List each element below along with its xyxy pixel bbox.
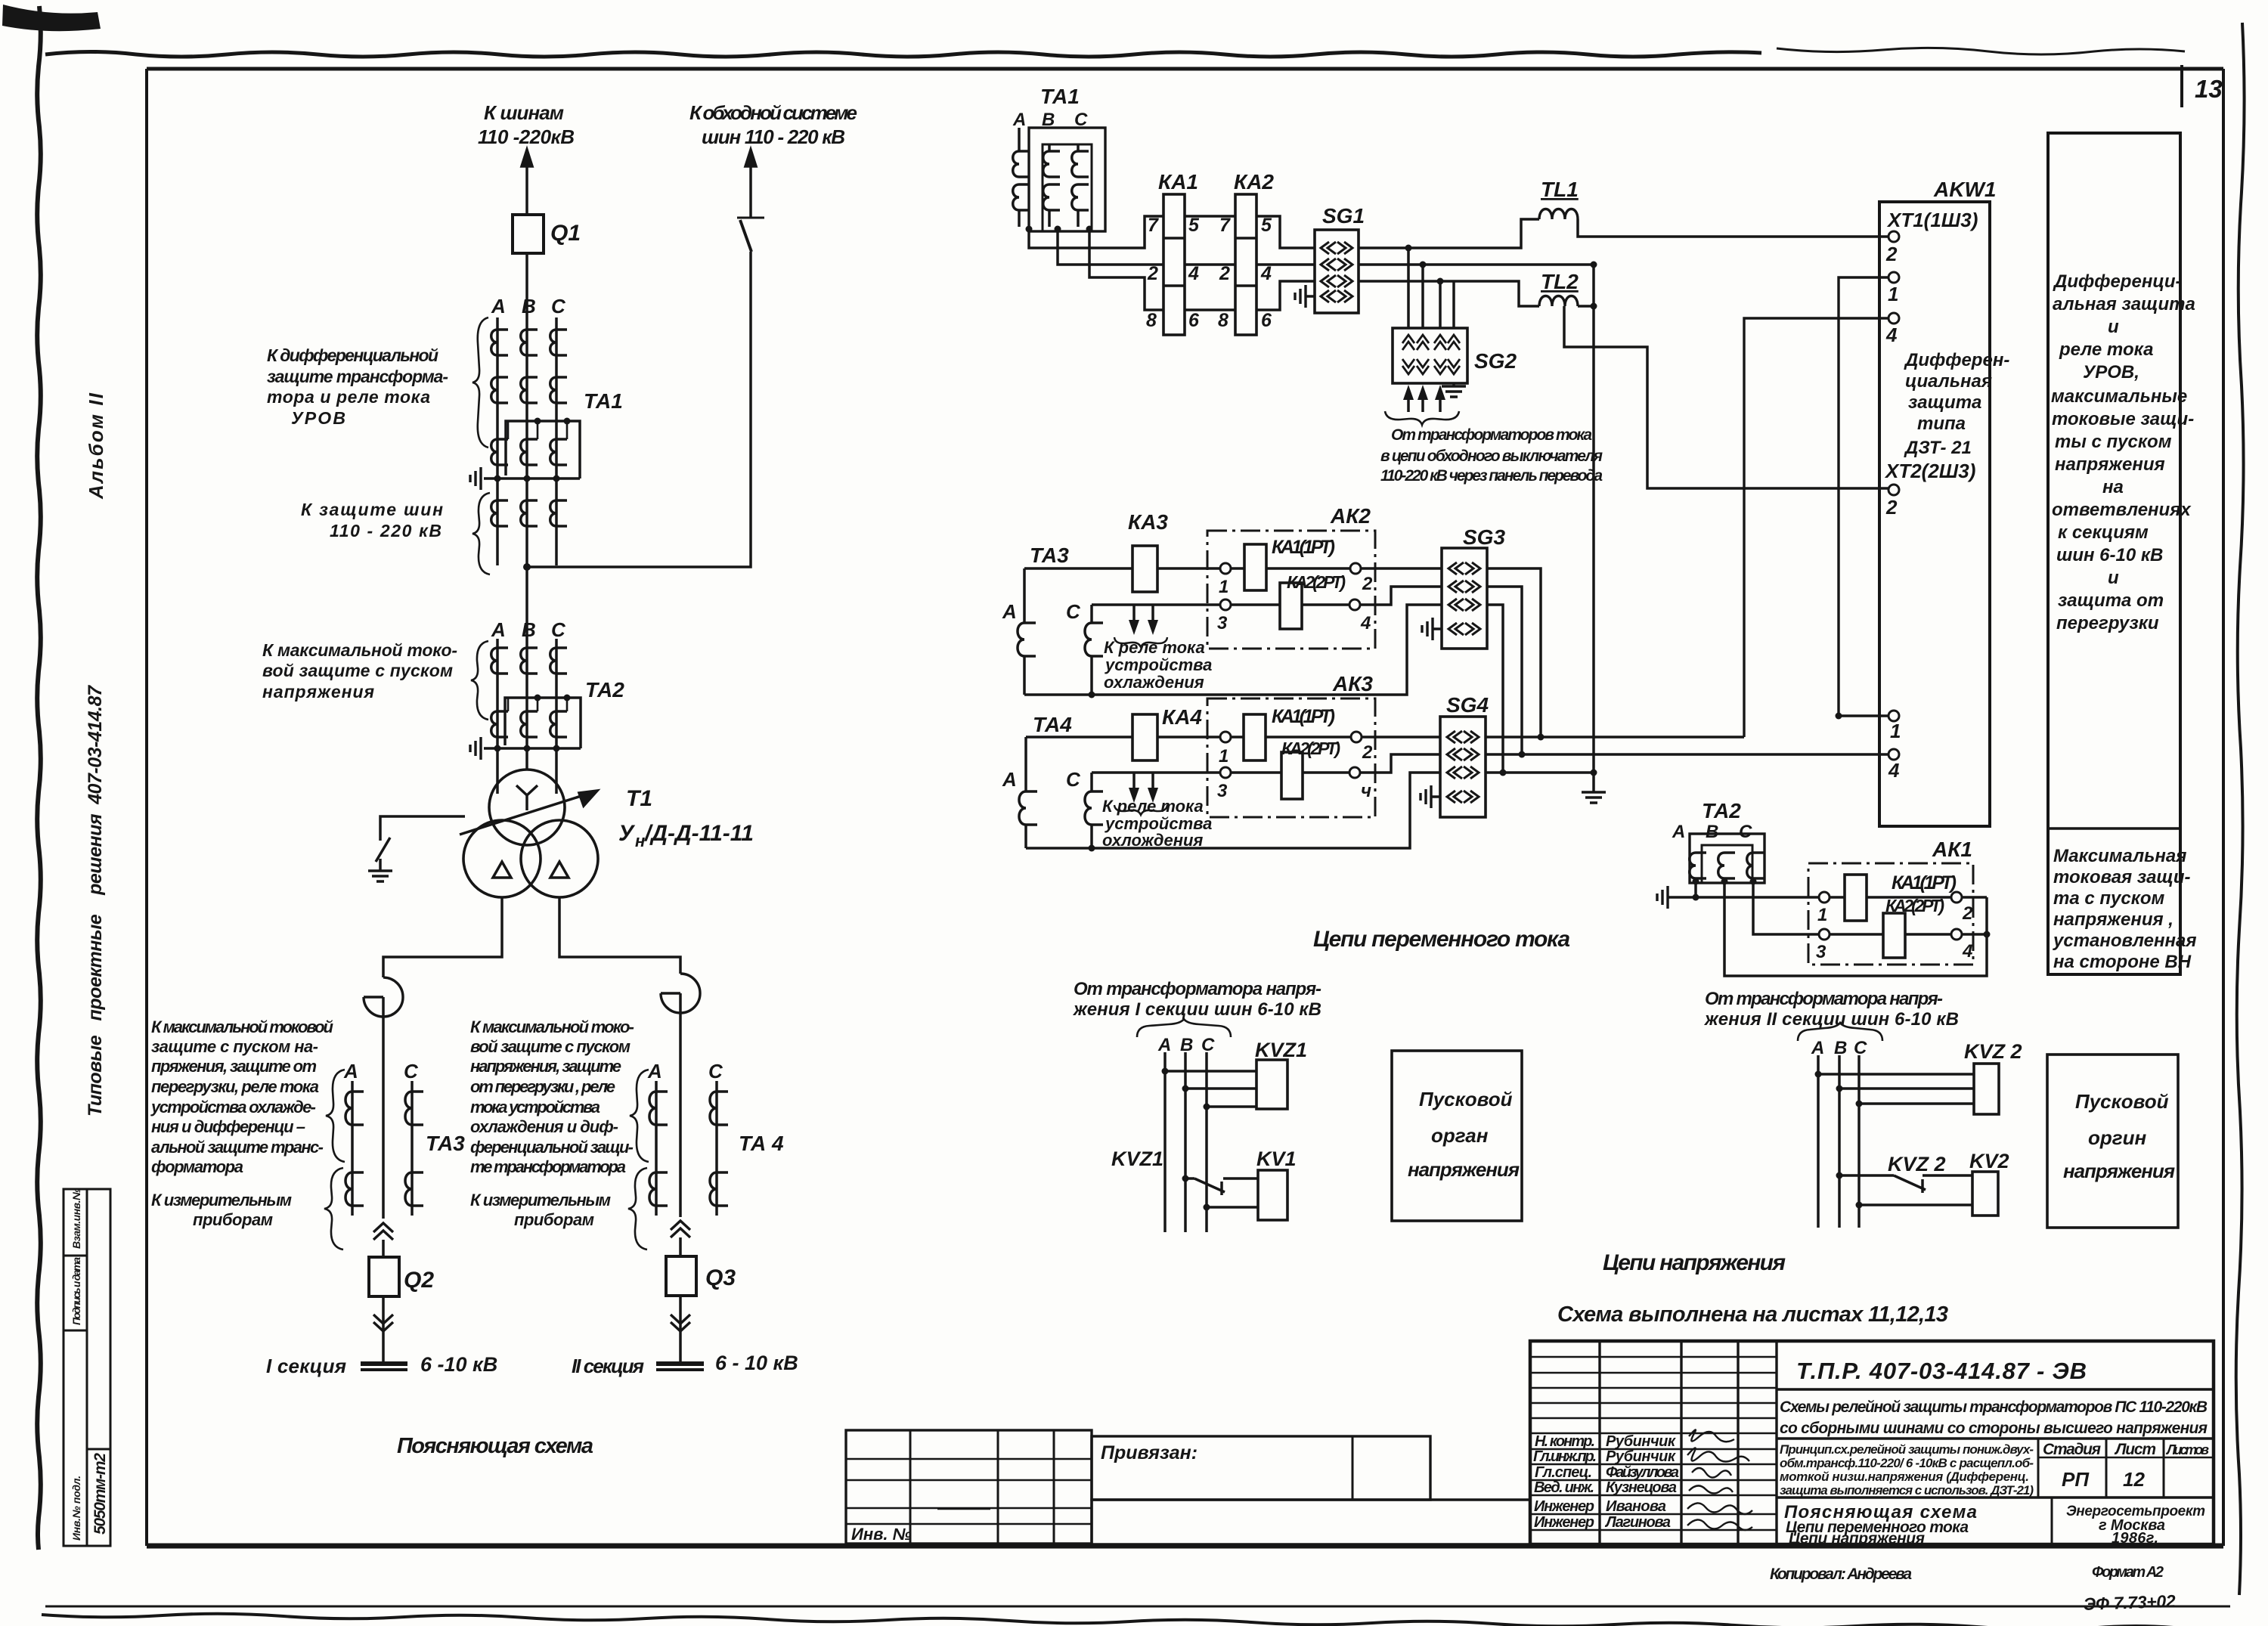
CT TA1 box — [506, 421, 580, 479]
svg-text:В: В — [1180, 1035, 1193, 1055]
feeder II chevrons up — [671, 1221, 690, 1237]
svg-text:3: 3 — [1217, 781, 1228, 801]
svg-text:Привязан:: Привязан: — [1101, 1442, 1198, 1463]
svg-text:4: 4 — [1360, 613, 1371, 633]
transformer T1: delta circle left — [463, 820, 541, 897]
svg-text:TL1: TL1 — [1541, 178, 1579, 201]
svg-text:Дифференци-: Дифференци- — [2053, 271, 2181, 292]
relay box AK1 (dash-dot) — [1808, 863, 1973, 965]
wire phase C line (upper CT group) — [555, 317, 558, 565]
svg-text:устройства охлажде-: устройства охлажде- — [150, 1098, 316, 1117]
svg-text:реле тока: реле тока — [2059, 339, 2153, 360]
svg-text:защите трансформа-: защите трансформа- — [267, 367, 448, 386]
relay KV2 — [1972, 1172, 1998, 1216]
svg-text:В: В — [1834, 1038, 1847, 1058]
svg-text:Файзуллова: Файзуллова — [1606, 1464, 1679, 1481]
svg-text:защите с пуском на-: защите с пуском на- — [151, 1037, 318, 1056]
svg-text:со сборными шинами со сторо: со сборными шинами со стороны высшего на… — [1780, 1420, 2208, 1437]
relay KA2 — [1235, 194, 1256, 335]
wire SG4 row2 to AKW1 lower 4 — [1486, 753, 1888, 756]
ground at SG1 — [1306, 295, 1315, 298]
svg-text:6 - 10 кВ: 6 - 10 кВ — [715, 1352, 798, 1374]
box Пусковой орган напряжения (I) — [1392, 1051, 1522, 1221]
test block SG2 — [1393, 328, 1467, 383]
relay KA4 — [1132, 714, 1157, 760]
wire R1 after SG1 to TL1 — [1359, 219, 1539, 248]
right part dividers — [1777, 1389, 2214, 1497]
svg-text:напряжения: напряжения — [2055, 454, 2165, 475]
svg-text:обм.трансф.110-220/ 6 -10кВ с: обм.трансф.110-220/ 6 -10кВ с расщепл.об… — [1780, 1456, 2034, 1470]
svg-text:перегрузки, реле тока: перегрузки, реле тока — [151, 1077, 319, 1096]
transformer T1: delta circle right — [521, 820, 598, 897]
svg-text:УРОВ,: УРОВ, — [2083, 362, 2139, 382]
svg-text:оргин: оргин — [2088, 1126, 2147, 1149]
svg-text:защита: защита — [1908, 392, 1981, 413]
svg-text:От трансформатора напря-: От трансформатора напря- — [1074, 979, 1321, 999]
svg-text:К дифференциальной: К дифференциальной — [267, 345, 438, 365]
svg-text:К реле тока: К реле тока — [1102, 797, 1204, 816]
wire pin2 to SG4 row1 — [1362, 736, 1440, 739]
svg-text:С: С — [551, 295, 566, 317]
svg-text:5050тм-т2: 5050тм-т2 — [91, 1453, 109, 1535]
CT TA4 loop: top wire — [1026, 736, 1225, 739]
svg-text:А: А — [1811, 1038, 1824, 1058]
svg-text:Копировал: Андреева: Копировал: Андреева — [1770, 1566, 1912, 1583]
svg-text:н: н — [635, 832, 645, 850]
svg-text:КА1(1РТ): КА1(1РТ) — [1272, 706, 1335, 727]
stubs below SG2 with arrows — [1408, 392, 1440, 412]
wire SG4 row1 to XT1-4 riser — [1486, 736, 1744, 739]
node: К обходной системе arrow — [749, 162, 752, 218]
feeder I chevrons down — [373, 1315, 393, 1331]
svg-text:шин 110 - 220 кВ: шин 110 - 220 кВ — [702, 125, 845, 148]
overbrace — [1798, 1023, 1882, 1041]
transformer T1: star circle — [489, 770, 565, 845]
svg-text:6: 6 — [1188, 310, 1200, 331]
svg-text:Вед. инж.: Вед. инж. — [1534, 1479, 1594, 1496]
CT TA2 secondary windings — [491, 711, 508, 737]
svg-text:I секция: I секция — [266, 1355, 346, 1377]
svg-text:К измерительным: К измерительным — [151, 1191, 292, 1209]
svg-text:ответвлениях: ответвлениях — [2052, 500, 2192, 520]
pin 1 — [1220, 732, 1231, 742]
svg-text:на стороне ВН: на стороне ВН — [2053, 952, 2192, 972]
pin 4 — [1349, 599, 1360, 610]
svg-text:Альбом II: Альбом II — [85, 392, 107, 500]
winding A — [1690, 853, 1706, 878]
wire R2 after SG1 — [1359, 263, 1594, 266]
svg-text:токовые защи-: токовые защи- — [2052, 409, 2194, 429]
output dots — [1026, 226, 1033, 233]
svg-text:KVZ 2: KVZ 2 — [1888, 1153, 1946, 1175]
wire XT1-1 to V3 — [1839, 277, 1888, 716]
svg-text:пряжения, защите от: пряжения, защите от — [151, 1057, 317, 1076]
svg-text:Схема выполнена на листах 1: Схема выполнена на листах 11,12,13 — [1557, 1302, 1948, 1327]
svg-text:К максимальной токо-: К максимальной токо- — [262, 640, 457, 660]
top-left corner blob — [2, 5, 101, 31]
TA2 secondary bus — [484, 747, 581, 750]
svg-text:охлаждения и диф-: охлаждения и диф- — [470, 1117, 618, 1136]
svg-text:4: 4 — [1260, 263, 1272, 284]
svg-text:альная защита: альная защита — [2053, 294, 2195, 314]
ground at TA1 bus — [470, 467, 481, 490]
breaker Q2 — [382, 1240, 385, 1257]
svg-text:в цепи обходного выключателя: в цепи обходного выключателя — [1380, 448, 1603, 465]
winding B — [1048, 144, 1051, 151]
wire TL2 lower branch to XT2 — [1564, 306, 1888, 488]
terminal lower 1 — [1888, 711, 1899, 721]
svg-text:SG2: SG2 — [1474, 349, 1517, 373]
svg-text:Инв. №: Инв. № — [851, 1525, 912, 1544]
svg-text:7: 7 — [1148, 215, 1159, 236]
CT TA2 primary windings — [491, 648, 508, 674]
svg-text:Максимальная: Максимальная — [2053, 846, 2186, 866]
wire phase A line (upper CT group) — [496, 317, 499, 565]
svg-text:КА2(2РТ): КА2(2РТ) — [1281, 739, 1340, 758]
wire phase A line (TA2 group) — [496, 639, 499, 794]
ground at TA2 bus — [1657, 886, 1668, 909]
svg-text:ТА4: ТА4 — [1033, 713, 1072, 736]
svg-text:KVZ1: KVZ1 — [1111, 1147, 1163, 1170]
svg-text:приборам: приборам — [193, 1210, 273, 1229]
contact KVZ2 + wire to KV2 — [1839, 1174, 1972, 1177]
svg-text:KVZ1: KVZ1 — [1255, 1039, 1307, 1061]
svg-text:форматора: форматора — [151, 1157, 243, 1176]
relay KA2(2PT) of AK1 — [1830, 933, 1951, 936]
svg-text:Кузнецова: Кузнецова — [1606, 1479, 1677, 1496]
wire pin4 to SG3 row2 — [1360, 587, 1442, 605]
svg-text:В: В — [522, 618, 536, 641]
svg-text:ХТ1(1Ш3): ХТ1(1Ш3) — [1886, 209, 1978, 231]
delta symbol right — [550, 862, 569, 878]
svg-text:К максимальной токовой: К максимальной токовой — [151, 1017, 334, 1036]
wire pin4 to SG4 row2 — [1360, 754, 1440, 773]
svg-text:охлождения: охлождения — [1102, 831, 1203, 850]
svg-text:1: 1 — [1817, 905, 1827, 925]
svg-text:Q2: Q2 — [404, 1268, 434, 1293]
svg-text:КА2(2РТ): КА2(2РТ) — [1287, 572, 1346, 592]
svg-text:6 -10 кВ: 6 -10 кВ — [420, 1353, 497, 1376]
svg-text:Иванова: Иванова — [1606, 1498, 1666, 1515]
svg-text:КА1(1РТ): КА1(1РТ) — [1892, 872, 1957, 894]
svg-text:защита от: защита от — [2058, 590, 2164, 611]
svg-text:8: 8 — [1146, 310, 1157, 331]
bottom loop wire — [1024, 605, 1442, 695]
bus B — [1184, 1052, 1187, 1232]
svg-text:Лагинова: Лагинова — [1604, 1514, 1671, 1531]
left attribute strip — [64, 1189, 110, 1546]
torn top paper edge — [45, 52, 1761, 57]
relay KV1 — [1258, 1170, 1287, 1220]
svg-text:3: 3 — [1217, 613, 1228, 633]
svg-text:шин 6-10 кВ: шин 6-10 кВ — [2056, 545, 2163, 565]
svg-text:КА1: КА1 — [1158, 170, 1198, 194]
terminal XT1-1 — [1888, 272, 1899, 283]
relay KVZ1 — [1256, 1060, 1287, 1109]
svg-text:Цепи переменного тока: Цепи переменного тока — [1313, 927, 1570, 952]
svg-text:Инв.№ подл.: Инв.№ подл. — [70, 1476, 82, 1541]
CT TA2 secondary block — [1690, 834, 1765, 883]
svg-text:устройства: устройства — [1105, 655, 1212, 674]
bus A — [1163, 1052, 1167, 1232]
svg-text:А: А — [1002, 768, 1017, 791]
svg-text:напряжения: напряжения — [1408, 1158, 1520, 1181]
svg-text:Поясняющая схема: Поясняющая схема — [397, 1434, 593, 1458]
device AKW1 box — [1879, 202, 1990, 826]
contact KVZ1 + wire to KV1 — [1185, 1177, 1258, 1180]
svg-text:5: 5 — [1261, 215, 1272, 236]
relay KA1 — [1163, 194, 1185, 335]
svg-text:защита выполняется с использов: защита выполняется с использов. ДЗТ-21) — [1780, 1483, 2034, 1497]
svg-text:1: 1 — [1890, 720, 1901, 742]
svg-text:тора и реле тока: тора и реле тока — [267, 387, 430, 407]
svg-text:ЭФ 7.73+02: ЭФ 7.73+02 — [2083, 1591, 2176, 1614]
long vertical V1 to ground — [1592, 265, 1595, 773]
svg-text:4: 4 — [1888, 759, 1900, 782]
svg-text:и: и — [2108, 317, 2119, 337]
svg-text:Инженер: Инженер — [1534, 1514, 1594, 1531]
neutral earthing switch of T1 — [380, 816, 465, 841]
svg-text:перегрузки: перегрузки — [2056, 613, 2159, 633]
svg-text:II секция: II секция — [572, 1355, 644, 1377]
wire drops to SG2 — [1408, 248, 1454, 328]
wire pin2 to SG3 row1 — [1361, 567, 1442, 570]
test block SG3 — [1442, 548, 1487, 649]
bottom page lines — [45, 1606, 2230, 1608]
svg-text:ХТ2(2Ш3): ХТ2(2Ш3) — [1884, 460, 1975, 482]
terminal lower 4 — [1888, 749, 1899, 760]
wire SG3 row2 to SG4 row2 — [1487, 587, 1522, 754]
svg-text:напряжения ,: напряжения , — [2053, 909, 2173, 930]
brace bus protection — [472, 493, 490, 575]
svg-text:Q3: Q3 — [705, 1265, 736, 1290]
svg-text:К защите шин: К защите шин — [301, 500, 443, 519]
svg-text:АК1: АК1 — [1932, 838, 1972, 861]
svg-text:Дифферен-: Дифферен- — [1904, 350, 2009, 370]
svg-text:ДЗТ- 21: ДЗТ- 21 — [1904, 438, 1972, 458]
node: К шинам 110-220кВ arrow — [525, 162, 528, 215]
wire R3: TA1 to KA1 pin8 — [1089, 229, 1163, 310]
wire R1: TA1 to KA1 pin7 — [1029, 216, 1163, 248]
busbar II section — [656, 1361, 704, 1366]
svg-text:напряжения: напряжения — [262, 682, 374, 702]
bus B — [1838, 1055, 1841, 1228]
terminal XT2-2 — [1888, 485, 1899, 495]
pin 1 — [1220, 563, 1231, 574]
underbrace cooling — [1114, 637, 1167, 647]
wire phase C line (TA2 group) — [555, 639, 558, 794]
winding C drop to pin3 row — [1753, 881, 1819, 934]
signatures scribbles — [1689, 1429, 1734, 1442]
svg-text:К обходной системе: К обходной системе — [689, 101, 857, 124]
brace TA4 group1 — [630, 1070, 649, 1162]
bus C — [1205, 1052, 1208, 1232]
ground below SG2 column 4 — [1452, 383, 1455, 386]
svg-text:Пусковой: Пусковой — [1419, 1088, 1513, 1110]
svg-text:охлаждения: охлаждения — [1104, 673, 1204, 692]
svg-text:110-220 кВ через панель пер: 110-220 кВ через панель перевода — [1380, 467, 1603, 485]
svg-text:ТА3: ТА3 — [1030, 544, 1069, 567]
ground at SG3 — [1433, 627, 1442, 630]
CT TA3 windings group1 — [345, 1092, 364, 1125]
svg-text:С: С — [1066, 600, 1081, 623]
feeder I chevrons up — [373, 1223, 393, 1240]
breaker Q3 — [679, 1237, 682, 1256]
CT TA3 loop: top wire — [1024, 567, 1225, 570]
CT TA1 primary windings group 1 — [491, 330, 508, 355]
svg-text:А: А — [1672, 822, 1685, 842]
LV lead left — [383, 897, 502, 977]
svg-text:SG1: SG1 — [1322, 204, 1365, 228]
svg-text:2: 2 — [1885, 243, 1898, 265]
svg-text:2: 2 — [1362, 574, 1373, 594]
disconnector (bypass) — [737, 217, 764, 219]
wires to KVZ2 — [1818, 1074, 1974, 1104]
svg-text:KV1: KV1 — [1256, 1147, 1297, 1170]
svg-text:С: С — [1739, 822, 1752, 842]
CT TA4 left leg with winding A — [1024, 737, 1027, 791]
svg-text:Листов: Листов — [2165, 1442, 2209, 1457]
svg-text:Формат А2: Формат А2 — [2092, 1564, 2164, 1581]
svg-text:Рубинчик: Рубинчик — [1606, 1433, 1676, 1450]
svg-text:Гл.инж.пр.: Гл.инж.пр. — [1533, 1448, 1597, 1465]
wires KA1 to KA2 — [1185, 216, 1235, 310]
wire C to KV2 — [1859, 1203, 1972, 1206]
svg-text:ТА2: ТА2 — [585, 678, 624, 702]
svg-text:КА2(2РТ): КА2(2РТ) — [1885, 896, 1944, 915]
wire B phase main — [525, 253, 528, 770]
CT TA4 windings group2 — [649, 1172, 668, 1206]
winding C — [1077, 144, 1080, 151]
svg-text:2: 2 — [1147, 263, 1158, 284]
winding B — [1718, 853, 1735, 878]
wire C to KV1 — [1207, 1206, 1258, 1209]
busbar I section — [361, 1361, 407, 1366]
svg-text:ТА3: ТА3 — [426, 1132, 465, 1155]
svg-text:А: А — [491, 618, 506, 641]
svg-text:4: 4 — [1188, 263, 1199, 284]
CT TA3 left leg with winding A — [1023, 568, 1026, 623]
TA4 phase A line — [655, 1081, 658, 1216]
svg-text:К шинам: К шинам — [484, 101, 564, 124]
svg-text:напряжения, защите: напряжения, защите — [470, 1057, 621, 1076]
svg-text:8: 8 — [1218, 310, 1228, 331]
svg-text:та с пуском: та с пуском — [2053, 888, 2165, 909]
wire SG4 row3 to ground V1 — [1486, 771, 1594, 774]
reactor TL2 — [1539, 296, 1578, 307]
svg-text:А: А — [343, 1060, 358, 1082]
svg-text:/Д-Д-11-11: /Д-Д-11-11 — [643, 821, 754, 846]
svg-text:к секциям: к секциям — [2058, 522, 2149, 543]
svg-text:Q1: Q1 — [550, 221, 581, 246]
svg-text:от перегрузки , реле: от перегрузки , реле — [470, 1077, 615, 1096]
relay KA2(2PT) of AK3 — [1231, 771, 1349, 774]
relay KA3 — [1132, 546, 1157, 592]
left columns — [1600, 1341, 1777, 1544]
svg-text:напряжения: напряжения — [2063, 1160, 2175, 1182]
bus C — [1857, 1055, 1861, 1228]
svg-text:на: на — [2102, 477, 2124, 497]
bus A — [1817, 1055, 1820, 1228]
relay box AK3 (dash-dot) — [1207, 698, 1375, 817]
wire TL1 to XT1-2 — [1578, 219, 1888, 237]
CT TA4 C column — [1090, 773, 1093, 791]
pin 2 — [1350, 563, 1361, 574]
svg-text:AKW1: AKW1 — [1933, 178, 1996, 201]
svg-text:максимальные: максимальные — [2051, 386, 2187, 407]
split-winding hook right — [661, 974, 700, 1013]
svg-text:токовая защи-: токовая защи- — [2053, 867, 2191, 887]
LV lead right — [559, 897, 680, 974]
svg-text:вой защите с пуском: вой защите с пуском — [470, 1037, 631, 1056]
pin 4 — [1951, 929, 1962, 940]
svg-text:1986г.: 1986г. — [2112, 1530, 2158, 1547]
svg-text:КА2: КА2 — [1234, 170, 1274, 194]
svg-text:А: А — [1157, 1035, 1171, 1055]
underbrace — [1385, 411, 1459, 425]
svg-text:SG4: SG4 — [1446, 693, 1489, 717]
svg-text:Схемы релейной защиты трансфо: Схемы релейной защиты трансформаторов ПС… — [1780, 1398, 2208, 1416]
pin 2 — [1951, 892, 1962, 903]
brace TA3 group2 — [324, 1168, 343, 1250]
svg-text:К измерительным: К измерительным — [470, 1191, 611, 1209]
svg-text:С: С — [551, 618, 566, 641]
svg-text:Взам.инв.№: Взам.инв.№ — [70, 1188, 82, 1249]
test block SG4 — [1440, 717, 1486, 817]
svg-text:С: С — [1074, 110, 1088, 130]
CT TA1 primary windings group 2 — [491, 377, 508, 403]
svg-text:альной защите транс-: альной защите транс- — [151, 1138, 324, 1157]
svg-text:12: 12 — [2123, 1468, 2145, 1491]
svg-text:ния и дифференци –: ния и дифференци – — [151, 1117, 305, 1136]
relay KA1(1PT) of AK3 — [1231, 736, 1351, 739]
svg-text:С: С — [404, 1060, 419, 1082]
wires to KVZ1 — [1165, 1071, 1256, 1107]
TA3 phase A line — [351, 1081, 354, 1216]
underbrace cooling — [1114, 805, 1167, 815]
svg-text:5: 5 — [1188, 215, 1200, 236]
svg-text:Инженер: Инженер — [1534, 1498, 1594, 1515]
relay KVZ2 — [1974, 1064, 1999, 1114]
svg-text:В: В — [1706, 822, 1718, 842]
svg-text:С: С — [1066, 768, 1081, 791]
left rows — [1530, 1357, 1777, 1530]
pin 3 — [1220, 599, 1231, 610]
terminal XT1-2 — [1888, 231, 1899, 242]
svg-text:1: 1 — [1219, 577, 1228, 597]
pin 3 — [1819, 929, 1830, 940]
split-winding hook left — [364, 977, 403, 1017]
CT TA1 secondary windings — [491, 439, 508, 465]
svg-text:АК2: АК2 — [1330, 504, 1371, 528]
brace TA4 group2 — [628, 1168, 647, 1250]
note box tall — [2048, 133, 2180, 974]
svg-text:TL2: TL2 — [1541, 270, 1579, 293]
reactor TL1 — [1539, 209, 1578, 220]
svg-text:А: А — [491, 295, 506, 317]
winding B drop to bottom loop — [1724, 881, 1987, 976]
svg-text:2: 2 — [1885, 496, 1898, 519]
svg-text:4: 4 — [1885, 324, 1898, 346]
svg-text:КА3: КА3 — [1128, 510, 1168, 534]
bus wire to pin1 — [1668, 896, 1819, 899]
CT TA4 windings group1 — [649, 1092, 668, 1125]
svg-text:типа: типа — [1917, 413, 1966, 434]
relay KA1(1PT) of AK2 — [1231, 567, 1350, 570]
CT TA3 windings group2 — [345, 1172, 364, 1206]
svg-text:KVZ 2: KVZ 2 — [1964, 1040, 2022, 1063]
svg-text:В: В — [1042, 110, 1055, 130]
